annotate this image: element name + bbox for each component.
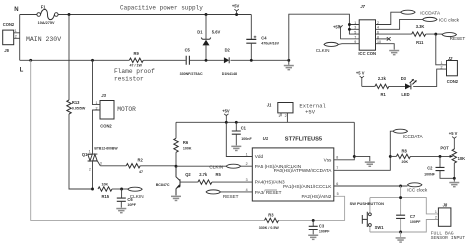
svg-text:BC847C: BC847C <box>156 183 170 187</box>
svg-text:8: 8 <box>336 156 338 160</box>
svg-text:100NF: 100NF <box>424 172 436 176</box>
svg-text:CON2: CON2 <box>3 22 15 27</box>
potentiometer POT 10K <box>452 148 456 178</box>
svg-text:2.7k: 2.7k <box>199 172 208 177</box>
svg-text:5: 5 <box>354 31 356 35</box>
wire J7 pins 1,3 stubs <box>349 25 359 30</box>
svg-text:L: L <box>20 67 24 73</box>
zener diode D1 <box>201 15 211 61</box>
svg-text:resistor: resistor <box>114 75 144 82</box>
svg-text:ST7FLITEUS5: ST7FLITEUS5 <box>285 136 322 142</box>
ground G4 (C1) <box>231 146 241 152</box>
svg-text:ICCDATA: ICCDATA <box>420 10 441 15</box>
svg-text:Q2: Q2 <box>185 172 191 177</box>
wire N rail middle <box>58 14 251 16</box>
ground G7 (C3) <box>308 235 318 241</box>
wire ICCDATA to pin7 <box>334 131 393 170</box>
svg-text:CON2: CON2 <box>100 123 112 128</box>
svg-text:CON2: CON2 <box>447 79 459 84</box>
wire R2 to node X <box>140 165 176 167</box>
svg-text:+5V: +5V <box>232 4 240 9</box>
junction C7 ground <box>399 231 402 234</box>
wire J2 pin2 to LED cathode <box>413 69 446 86</box>
svg-text:+5 V: +5 V <box>449 131 458 136</box>
svg-text:R9: R9 <box>134 51 140 56</box>
svg-text:U1: U1 <box>263 136 269 141</box>
resistor R11 <box>412 32 426 36</box>
svg-text:N: N <box>14 7 18 13</box>
svg-text:4: 4 <box>246 188 248 192</box>
wire +5V rail (U1 area) <box>176 121 354 123</box>
connector J1 external 5V <box>267 103 293 123</box>
svg-text:330K / 0.5W: 330K / 0.5W <box>259 226 280 230</box>
svg-text:1: 1 <box>246 152 248 156</box>
junction J7 pin1 <box>348 23 351 26</box>
switch SW1 pushbutton <box>362 198 371 232</box>
svg-text:D1N4148: D1N4148 <box>222 72 237 76</box>
svg-text:100PF: 100PF <box>319 229 330 233</box>
svg-text:100PF: 100PF <box>410 220 421 224</box>
svg-text:PA1(HS)/AIN1/ICCCLK: PA1(HS)/AIN1/ICCCLK <box>283 184 332 189</box>
junction CLKIN-C6 <box>120 188 123 191</box>
svg-text:PA0(HS)/ATPWM/ICCDATA: PA0(HS)/ATPWM/ICCDATA <box>274 168 333 173</box>
svg-text:0.05/5W: 0.05/5W <box>72 107 86 111</box>
resistor R5 <box>198 180 212 184</box>
svg-text:5.6V: 5.6V <box>212 29 221 34</box>
svg-text:10A/275V: 10A/275V <box>38 21 55 25</box>
diode D2 <box>224 57 229 63</box>
ground G5 (Q2 emitter) <box>171 196 181 202</box>
svg-text:C3: C3 <box>319 223 325 228</box>
wire R13 branch from N rail <box>69 15 93 190</box>
wire SW bottom (gray) <box>370 231 401 233</box>
svg-text:470uF/16V: 470uF/16V <box>261 42 279 46</box>
resistor R9 <box>129 58 143 62</box>
wire J7 pin10 to ground <box>376 44 395 50</box>
junction L-C4 <box>250 59 253 62</box>
svg-text:100nF: 100nF <box>241 137 252 141</box>
svg-text:SW1: SW1 <box>375 225 385 230</box>
wire J5 pin stubs <box>14 33 20 39</box>
svg-text:1: 1 <box>441 61 443 65</box>
wire N rail left <box>20 14 37 16</box>
net flag CLKIN (U1 pin2) <box>226 164 240 168</box>
+5V symbol (U1 rail) <box>222 108 230 122</box>
capacitor C5 <box>186 56 189 65</box>
svg-text:3: 3 <box>100 162 102 166</box>
net flag ICCDATA (top) <box>401 10 415 14</box>
svg-text:J7: J7 <box>360 4 365 9</box>
net flag CLKIN (J7 pin9) <box>324 42 338 46</box>
svg-text:C2: C2 <box>427 165 433 170</box>
junction node X <box>175 165 178 168</box>
svg-text:ICC clock: ICC clock <box>439 18 460 23</box>
junction L-D1 <box>205 59 208 62</box>
junction ground node <box>287 59 290 62</box>
junction C1 <box>235 121 238 124</box>
ground G1 (supply) <box>284 60 294 70</box>
capacitor C7 <box>396 215 405 218</box>
net flag ICC clock (top) <box>423 17 437 21</box>
wire to R8 <box>390 155 396 157</box>
svg-text:Capacitive power supply: Capacitive power supply <box>120 4 203 11</box>
wire node X to CLKIN flag and pin2 <box>176 165 252 167</box>
wire Vdd feed <box>226 122 252 156</box>
capacitor C2 <box>436 156 455 178</box>
svg-text:RESET: RESET <box>450 36 466 41</box>
resistor R3 <box>265 218 279 222</box>
junction SW top crossing <box>399 196 402 199</box>
svg-text:47: 47 <box>139 170 143 174</box>
wire CON2 vertical N-L <box>19 15 21 61</box>
junction pin6-C7 <box>399 185 402 188</box>
net flag RESET (U1 pin4) <box>206 190 220 194</box>
junction R8-C2 <box>439 155 442 158</box>
LED D3 <box>405 79 417 90</box>
svg-text:POT: POT <box>440 146 449 151</box>
resistor R1 <box>375 84 389 88</box>
capacitor C4 electrolytic <box>246 15 256 61</box>
svg-text:2: 2 <box>246 162 248 166</box>
connector J8 sensor <box>435 202 451 226</box>
capacitor C3 <box>309 220 318 234</box>
svg-text:J2: J2 <box>448 56 453 61</box>
+5V symbol (main rail) <box>232 4 240 15</box>
transistor Q2 <box>176 166 198 195</box>
IC U1 ST7FLITEUS5 <box>252 148 333 201</box>
+5V symbol (ICC) <box>333 24 359 39</box>
resistor R8 <box>396 154 410 158</box>
capacitor C1 <box>232 122 241 145</box>
svg-text:BTB12-600BW: BTB12-600BW <box>94 146 118 150</box>
ground G3 (Vss) <box>365 161 375 167</box>
wire R5 to pin3 <box>212 181 252 183</box>
svg-text:Vdd: Vdd <box>255 154 264 159</box>
svg-text:D2: D2 <box>225 47 231 52</box>
wire J7 pin4 to ICC clock <box>376 19 423 29</box>
wire J3 pin2 to triac <box>93 110 101 154</box>
wire R15 to CLKIN flag <box>112 188 128 190</box>
junction N-D1 <box>205 13 208 16</box>
svg-text:R2: R2 <box>138 158 144 163</box>
wire CLKIN flag to pin9 <box>338 43 359 46</box>
svg-text:6: 6 <box>336 182 338 186</box>
svg-text:C1: C1 <box>241 125 247 130</box>
junction N-R13 <box>68 13 71 16</box>
pot wiper arrow <box>450 155 454 158</box>
no-connect X on J7 pin8 <box>376 37 391 40</box>
ground G6 (C6) <box>116 208 126 214</box>
wire Vss ground branch <box>354 156 370 161</box>
connector J3 CON2 (motor) <box>100 93 114 128</box>
wire R1 to LED anode <box>389 85 405 87</box>
wire gate to R2 <box>100 165 126 167</box>
junction L-loop <box>29 59 32 62</box>
svg-text:MAIN 230V: MAIN 230V <box>26 36 61 43</box>
svg-text:PA4(HS)/AIN3: PA4(HS)/AIN3 <box>255 180 285 185</box>
junction N +5V <box>235 13 238 16</box>
svg-text:J8: J8 <box>443 202 448 207</box>
svg-text:R15: R15 <box>102 194 110 199</box>
svg-text:2: 2 <box>435 216 437 220</box>
svg-text:SW PUSHBUTTON: SW PUSHBUTTON <box>350 201 384 206</box>
svg-text:CLKIN: CLKIN <box>316 48 330 53</box>
svg-text:PA2(HS)/AIN2: PA2(HS)/AIN2 <box>302 194 332 199</box>
svg-text:330NF/275AC: 330NF/275AC <box>180 72 203 76</box>
ground G2 (J7 pin10) <box>389 50 399 56</box>
wire ground riser to ICC CON <box>289 14 359 60</box>
resistor R15 <box>98 187 112 191</box>
svg-text:100K: 100K <box>183 147 192 151</box>
junction ICCDATA-R8 <box>389 155 392 158</box>
+5V symbol (LED) <box>356 70 365 86</box>
svg-text:C7: C7 <box>410 214 416 219</box>
svg-text:ICC CON: ICC CON <box>358 51 376 56</box>
junction pot ground <box>453 177 456 180</box>
svg-text:J1: J1 <box>267 103 272 108</box>
svg-text:2: 2 <box>285 114 287 118</box>
capacitor C6 <box>117 189 126 208</box>
triac Q1 <box>88 154 101 166</box>
svg-text:J5: J5 <box>4 48 9 53</box>
wire pin6 to ICC clock flag <box>334 185 408 187</box>
connector J7 ICC CON <box>359 20 375 50</box>
svg-text:10K: 10K <box>458 156 466 161</box>
resistor R2 <box>126 164 140 168</box>
junction Vss ground branch <box>353 155 356 158</box>
svg-text:R3: R3 <box>268 213 274 218</box>
svg-text:PA3/ RESET: PA3/ RESET <box>255 190 282 195</box>
+5V symbol (pot) <box>449 131 458 149</box>
svg-text:2.2k: 2.2k <box>378 76 387 81</box>
svg-text:CLKIN: CLKIN <box>209 164 223 169</box>
wire RESET to CON2 J2 pin1 <box>436 34 447 65</box>
svg-text:J3: J3 <box>101 93 106 98</box>
svg-text:+5 V: +5 V <box>356 70 365 75</box>
svg-text:Vss: Vss <box>324 158 332 163</box>
svg-text:D3: D3 <box>401 76 407 81</box>
svg-text:+5V: +5V <box>222 108 230 113</box>
svg-text:R6: R6 <box>183 140 189 145</box>
wire +5V to R1 <box>362 85 375 87</box>
resistor R6 pullup <box>174 122 178 166</box>
wire triac MT1 down <box>92 161 94 189</box>
fuse F1 <box>37 9 58 19</box>
svg-text:5: 5 <box>337 192 339 196</box>
U1 pin4 overline <box>265 189 277 191</box>
junction L-J3 <box>91 59 94 62</box>
svg-text:+5V: +5V <box>305 108 316 115</box>
wire L rail <box>20 59 289 61</box>
svg-text:LED: LED <box>401 92 409 97</box>
wire RESET flag to pin4 <box>221 191 253 193</box>
svg-text:R1: R1 <box>381 92 387 97</box>
svg-text:MOTOR: MOTOR <box>117 106 136 113</box>
svg-text:ICC clock: ICC clock <box>407 187 428 192</box>
svg-text:Q1: Q1 <box>82 152 88 157</box>
svg-text:R8: R8 <box>402 149 408 154</box>
svg-text:7: 7 <box>336 166 338 170</box>
svg-text:R11: R11 <box>416 40 424 45</box>
svg-text:1: 1 <box>435 210 437 214</box>
svg-text:20K: 20K <box>402 160 409 164</box>
svg-text:R13: R13 <box>72 100 80 105</box>
wire J3 pin1 to L rail <box>93 60 101 104</box>
svg-text:F1: F1 <box>41 5 47 10</box>
wire rail to Vss pin8 <box>334 122 355 160</box>
wire J7 pin2 to ICCDATA <box>376 12 401 24</box>
svg-text:1: 1 <box>89 150 91 154</box>
wire C7 vertical (gray) <box>400 186 402 232</box>
net flag CLKIN (sense) <box>128 187 142 191</box>
svg-text:2: 2 <box>89 167 91 171</box>
svg-text:3.3K: 3.3K <box>416 24 425 29</box>
ground G8 (pot) <box>449 178 459 187</box>
svg-text:C5: C5 <box>185 47 191 52</box>
net flag ICCDATA (mid) <box>393 129 407 133</box>
svg-text:C6: C6 <box>127 197 133 202</box>
svg-text:D1: D1 <box>197 29 203 34</box>
ground G9 (C7) <box>396 232 406 243</box>
svg-text:C4: C4 <box>261 36 267 41</box>
junction RESET-CON2 <box>434 33 437 36</box>
svg-text:Flame proof: Flame proof <box>114 68 155 75</box>
svg-text:R5: R5 <box>216 172 222 177</box>
connector J2 CON2 (reset/LED) <box>441 56 459 84</box>
svg-text:RESET: RESET <box>223 194 239 199</box>
svg-text:10K: 10K <box>102 183 109 187</box>
svg-text:10PF: 10PF <box>127 203 136 207</box>
wire R8 to pot wiper <box>410 155 450 157</box>
svg-text:3: 3 <box>246 178 248 182</box>
svg-text:1: 1 <box>278 114 280 118</box>
junction triac-R15 node Y <box>91 188 94 191</box>
connector J5 CON2 (mains input) <box>3 22 15 53</box>
resistor R13 <box>67 100 71 114</box>
junction +5V stub <box>225 121 228 124</box>
junction J7 pin3 <box>348 28 351 31</box>
wire big loop L to sense (gray) <box>31 60 345 220</box>
net flag RESET (right) <box>442 33 456 37</box>
wire R11 to RESET flag <box>426 33 443 35</box>
net flag ICC clock (mid) <box>408 183 422 187</box>
wire J7 pin6 to R11 <box>376 33 412 35</box>
wire J8 pin2 branch (gray) <box>401 220 439 233</box>
wire SW section top (gray) <box>370 198 439 214</box>
svg-text:ICCDATA: ICCDATA <box>403 134 424 139</box>
svg-text:SENSOR INPUT: SENSOR INPUT <box>431 235 466 241</box>
junction R3-C3 <box>312 219 315 222</box>
